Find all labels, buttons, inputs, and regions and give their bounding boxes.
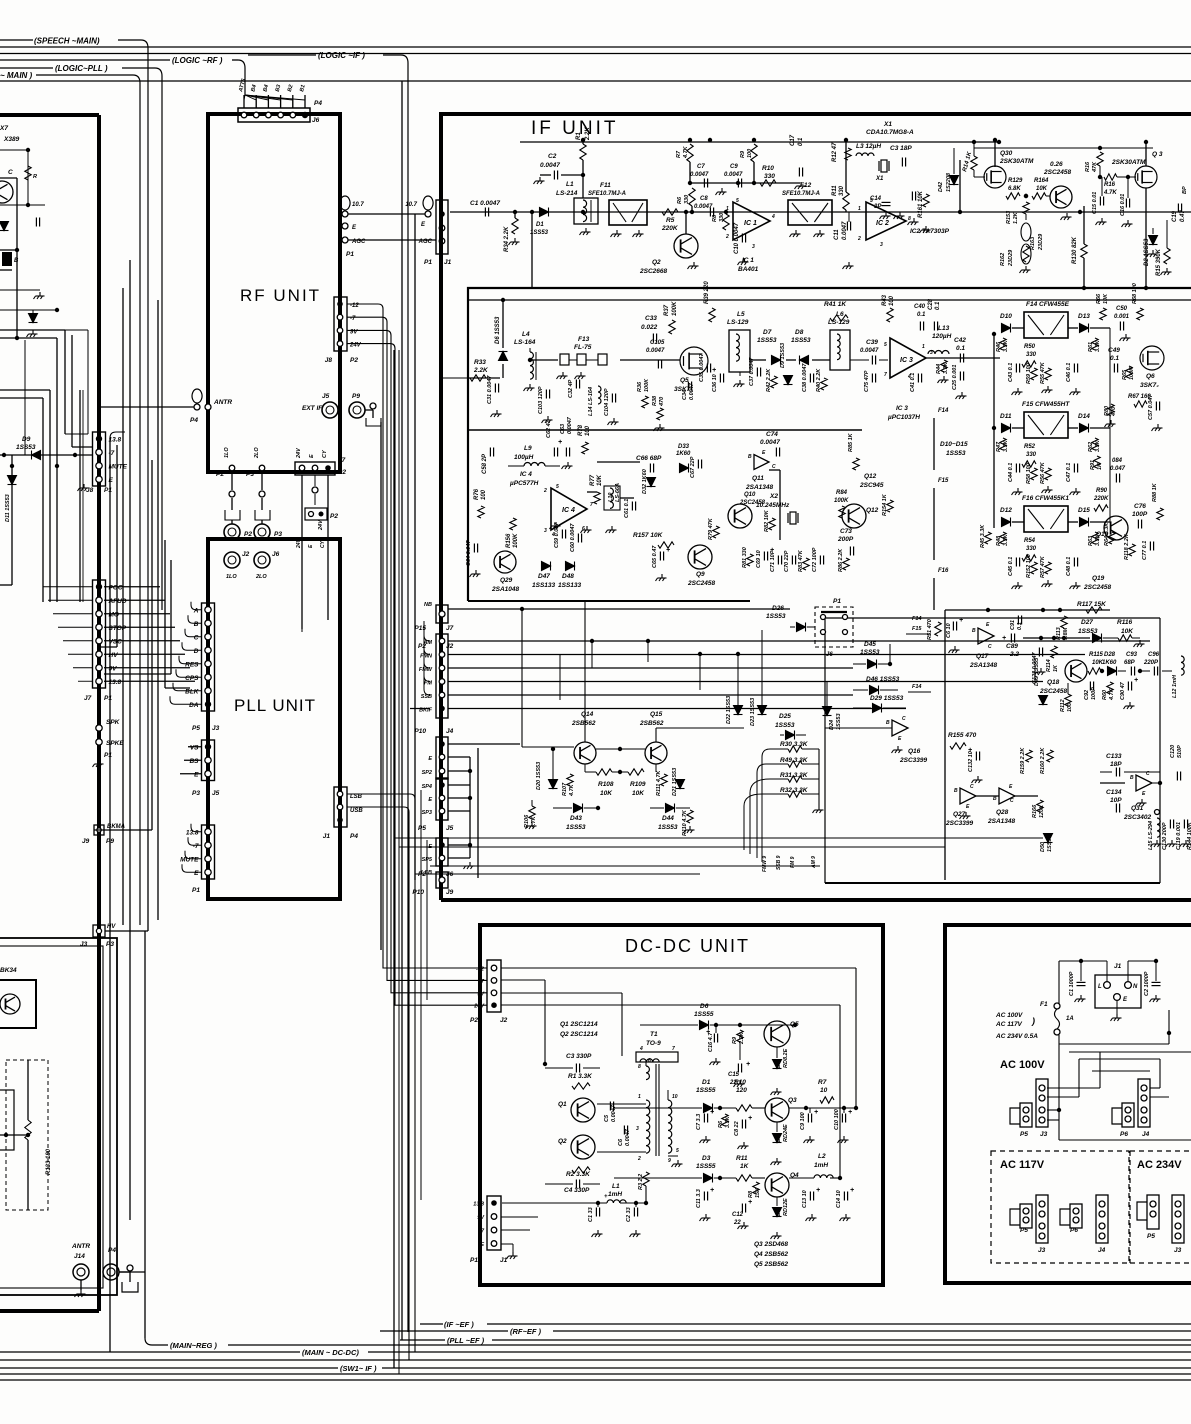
svg-text:F1: F1 — [1040, 1001, 1048, 1008]
wire agc — [348, 239, 436, 241]
connector P1 pll — [202, 825, 215, 879]
wire c133 bridge — [1100, 771, 1112, 773]
svg-text:L14 LS-164: L14 LS-164 — [588, 387, 594, 416]
wire J7 pin1 left — [48, 599, 93, 601]
svg-text:D22 1SS53: D22 1SS53 — [726, 696, 732, 724]
svg-text:D26: D26 — [772, 605, 784, 612]
svg-text:R36: R36 — [637, 381, 643, 392]
svg-text:D14: D14 — [1078, 413, 1090, 420]
capacitor lb c1 — [36, 218, 39, 227]
svg-text:1mH: 1mH — [608, 1191, 622, 1198]
svg-text:C120: C120 — [1170, 745, 1176, 758]
svg-text:6: 6 — [648, 1058, 651, 1064]
svg-text:Q31: Q31 — [1131, 805, 1144, 812]
svg-text:DA: DA — [189, 702, 199, 709]
pin FM — [439, 679, 445, 685]
svg-text:1SS53: 1SS53 — [775, 722, 795, 729]
svg-text:X1: X1 — [875, 176, 884, 182]
svg-text:RD24E: RD24E — [783, 1124, 789, 1142]
connector P6 ac — [1122, 1103, 1134, 1127]
svg-text:C65 0.47: C65 0.47 — [652, 545, 658, 568]
wire row3 h1 — [597, 461, 640, 463]
svg-text:C1 1000P: C1 1000P — [1069, 971, 1075, 996]
svg-text:C2 1000P: C2 1000P — [1144, 971, 1150, 996]
svg-text:D9: D9 — [22, 436, 31, 443]
pin E rf — [342, 223, 348, 229]
svg-text:Q14: Q14 — [581, 711, 594, 718]
svg-text:R68 100: R68 100 — [1132, 283, 1138, 304]
svg-text:C: C — [194, 634, 199, 641]
svg-text:R54: R54 — [1024, 538, 1036, 544]
svg-text:J6: J6 — [312, 117, 320, 124]
svg-text:AC 117V: AC 117V — [1000, 1159, 1045, 1171]
diode D11 — [8, 476, 17, 485]
svg-text:2SC3399: 2SC3399 — [945, 820, 973, 827]
wire return h2 — [399, 846, 945, 848]
svg-text:J6: J6 — [272, 551, 280, 558]
transistor Q19 — [1104, 516, 1128, 540]
svg-text:3: 3 — [880, 242, 883, 248]
wire ac rail3 — [1079, 1058, 1160, 1060]
small tri Q16 — [892, 720, 908, 736]
svg-text:C89: C89 — [1006, 643, 1018, 650]
wire pin5 up — [304, 95, 306, 108]
svg-text:B: B — [993, 796, 997, 802]
svg-text:1SS133: 1SS133 — [532, 582, 556, 589]
transistor Q4 dcdc — [765, 1173, 789, 1197]
svg-text:R78: R78 — [578, 424, 584, 436]
svg-text:10K: 10K — [632, 790, 645, 797]
svg-text:(LOGIC~PLL ): (LOGIC~PLL ) — [55, 64, 108, 73]
svg-text:IC 3: IC 3 — [896, 405, 908, 412]
pin -7 — [337, 314, 343, 320]
wire gap v6 — [157, 300, 159, 920]
svg-text:X7: X7 — [0, 125, 8, 132]
svg-text:R133 180: R133 180 — [46, 1148, 52, 1175]
svg-text:Q15: Q15 — [650, 711, 663, 718]
svg-text:R44: R44 — [936, 364, 942, 374]
subboard B outline — [468, 600, 750, 602]
svg-text:120µH: 120µH — [932, 333, 952, 340]
pin 24V — [337, 341, 343, 347]
RF unit outline — [208, 114, 340, 472]
svg-text:J3: J3 — [1040, 1131, 1048, 1138]
svg-text:Q10: Q10 — [744, 492, 756, 498]
svg-text:C: C — [1010, 798, 1014, 804]
svg-text:B: B — [954, 788, 958, 794]
svg-text:+: + — [850, 1187, 854, 1194]
wire ac drop3 — [1047, 1109, 1059, 1111]
svg-text:FMW: FMW — [419, 667, 433, 673]
small tri Q31 — [1136, 775, 1152, 791]
svg-text:N: N — [1133, 984, 1138, 990]
wire ac rail1 — [1059, 1043, 1169, 1045]
svg-text:3SK7₄: 3SK7₄ — [1140, 382, 1159, 389]
wire gap m2 — [398, 350, 400, 1374]
svg-text:J5: J5 — [446, 825, 454, 832]
svg-text:F16 CFW455K1: F16 CFW455K1 — [1022, 495, 1069, 502]
svg-text:P6: P6 — [1120, 1131, 1128, 1138]
svg-text:2LO: 2LO — [254, 447, 260, 459]
svg-text:F13: F13 — [578, 336, 590, 343]
svg-text:C14 10: C14 10 — [836, 1190, 842, 1208]
svg-text:4.7K: 4.7K — [1103, 190, 1117, 196]
svg-text:100µH: 100µH — [514, 454, 534, 461]
svg-text:F15 CFW455HT: F15 CFW455HT — [1022, 401, 1070, 408]
svg-text:C39: C39 — [866, 339, 878, 346]
svg-text:470: 470 — [659, 397, 665, 407]
wire rail q17 — [945, 609, 1110, 611]
wire FM left — [424, 662, 430, 682]
svg-text:J9: J9 — [82, 838, 90, 845]
svg-text:R109: R109 — [630, 781, 646, 788]
wire pll a6 — [173, 683, 202, 691]
pin C — [205, 634, 211, 640]
svg-text:µPC577H: µPC577H — [509, 480, 539, 487]
svg-text:D13: D13 — [1078, 313, 1090, 320]
transistor Q10 — [728, 504, 752, 528]
wire SSB — [448, 694, 853, 696]
svg-text:5: 5 — [676, 1148, 679, 1154]
pin A — [205, 607, 211, 613]
svg-text:C2: C2 — [548, 153, 557, 160]
svg-text:200P: 200P — [837, 536, 854, 543]
svg-text:BK34: BK34 — [0, 967, 17, 974]
inner rect — [0, 1090, 14, 1150]
svg-text:C32 4P: C32 4P — [568, 379, 574, 398]
connector J9/P9 BKMA — [94, 825, 104, 835]
svg-text:3: 3 — [544, 528, 547, 534]
wire q30 stub — [959, 160, 961, 212]
wire q17 link — [889, 644, 891, 664]
svg-text:(RF~EF ): (RF~EF ) — [510, 1327, 542, 1336]
svg-text:3P: 3P — [874, 204, 882, 210]
svg-text:R90: R90 — [1096, 488, 1108, 494]
transistor Q15 — [645, 742, 667, 764]
wire lo2 — [261, 471, 263, 490]
svg-text:Q1 2SC1214: Q1 2SC1214 — [560, 1021, 598, 1028]
svg-text:P3: P3 — [274, 531, 282, 538]
svg-text:2SC2458: 2SC2458 — [687, 580, 715, 587]
svg-text:L1: L1 — [612, 1183, 620, 1190]
svg-text:(SW1~ IF ): (SW1~ IF ) — [340, 1364, 377, 1373]
svg-text:D23 1SS53: D23 1SS53 — [750, 698, 756, 726]
svg-text:F15: F15 — [938, 478, 949, 484]
svg-text:C119 0.001: C119 0.001 — [1176, 822, 1182, 850]
svg-text:120: 120 — [736, 1087, 747, 1094]
svg-text:C6 10: C6 10 — [946, 623, 952, 638]
svg-text:2SB562: 2SB562 — [639, 720, 664, 727]
svg-text:330: 330 — [684, 195, 690, 204]
pin MUTE — [205, 856, 211, 862]
svg-text:SPK: SPK — [106, 719, 121, 726]
svg-text:C50: C50 — [1116, 306, 1128, 312]
pin dcdc2 -7 — [491, 1227, 497, 1233]
svg-text:D20 1SS53: D20 1SS53 — [536, 762, 542, 790]
svg-text:LSB: LSB — [350, 794, 363, 800]
svg-text:R8: R8 — [712, 214, 718, 222]
connector J8/P1 — [93, 432, 106, 486]
svg-text:D33: D33 — [678, 444, 690, 450]
svg-text:C38 0.0047: C38 0.0047 — [802, 363, 808, 392]
svg-text:R3 2.2: R3 2.2 — [638, 1174, 644, 1190]
svg-text:(MAIN ~ DC-DC): (MAIN ~ DC-DC) — [302, 1348, 359, 1357]
svg-text:Q4: Q4 — [790, 1172, 799, 1179]
wire J7 pin5 left — [68, 653, 93, 655]
connector J7/P1 — [93, 580, 106, 688]
svg-text:F15: F15 — [912, 626, 922, 632]
svg-text:10K: 10K — [600, 790, 613, 797]
svg-text:X389: X389 — [3, 136, 20, 143]
svg-text:1K: 1K — [740, 1163, 750, 1170]
wire left h7 — [0, 584, 12, 586]
svg-text:C7 3.3: C7 3.3 — [696, 1114, 702, 1130]
svg-text:C41 0.1: C41 0.1 — [910, 373, 916, 392]
svg-text:C69 10: C69 10 — [756, 550, 762, 568]
wire lb h12 — [0, 289, 40, 291]
svg-text:R88 1K: R88 1K — [1152, 482, 1158, 502]
wire bus ~MAIN — [0, 74, 1, 76]
wire pll c1 — [188, 837, 202, 845]
pin 13.8 — [205, 829, 211, 835]
speech unit inner — [0, 946, 103, 1288]
wire lo1 — [231, 471, 233, 490]
svg-text:R114: R114 — [1046, 659, 1052, 672]
wire pll b1 — [184, 759, 202, 761]
junction sp — [4, 1133, 8, 1137]
transistor Q12 — [842, 504, 866, 528]
wire return h3 — [430, 865, 820, 867]
svg-text:+: + — [558, 439, 562, 446]
svg-text:R85 1K: R85 1K — [848, 432, 854, 452]
svg-text:100: 100 — [585, 425, 591, 436]
svg-text:100P: 100P — [1132, 511, 1148, 518]
svg-text:IC 4: IC 4 — [520, 471, 532, 478]
svg-text:(IF ~EF ): (IF ~EF ) — [444, 1320, 474, 1329]
transistor Q18 — [1065, 660, 1087, 682]
wire bus b3 — [0, 1373, 1191, 1375]
svg-text:SFE10.7MJ-A: SFE10.7MJ-A — [782, 191, 820, 197]
wire ac drop4 — [1047, 1119, 1059, 1121]
svg-text:330: 330 — [1026, 452, 1037, 458]
component blob — [2, 252, 12, 266]
svg-text:+: + — [666, 547, 670, 554]
wire lb v11 — [82, 390, 84, 602]
junction c1 — [513, 210, 517, 214]
svg-text:ANTR: ANTR — [213, 399, 232, 406]
svg-text:0.1: 0.1 — [1110, 355, 1119, 362]
svg-text:R11: R11 — [736, 1155, 748, 1162]
wire row2 out — [926, 357, 1000, 359]
pin B — [205, 620, 211, 626]
svg-text:R7: R7 — [818, 1079, 827, 1086]
connector J7/P2 rf — [295, 462, 335, 475]
svg-text:AC 117V: AC 117V — [995, 1021, 1023, 1028]
svg-text:C90 47: C90 47 — [1120, 681, 1126, 700]
svg-text:C8: C8 — [700, 196, 708, 202]
pin E — [96, 476, 102, 482]
svg-text:(MAIN~REG ): (MAIN~REG ) — [170, 1341, 217, 1350]
wire row2 top — [468, 299, 1191, 301]
wire bus LOGIC~IF — [248, 54, 316, 56]
wire cy2 — [314, 475, 316, 486]
svg-text:C15 0.01: C15 0.01 — [1092, 192, 1098, 214]
svg-text:R50: R50 — [1024, 344, 1036, 350]
svg-text:J2: J2 — [500, 1017, 508, 1024]
wire bus b1 — [0, 1351, 300, 1353]
transistor Q6 — [1140, 346, 1164, 370]
svg-text:LS-129: LS-129 — [727, 319, 749, 326]
wire cy1 — [301, 475, 303, 629]
transistor Q9 — [688, 545, 712, 569]
svg-text:R60: R60 — [1102, 690, 1108, 700]
wire return h1 — [394, 837, 1043, 839]
svg-text:Q6: Q6 — [1146, 373, 1155, 380]
wire row2 main — [441, 377, 468, 379]
svg-text:C43 0.1: C43 0.1 — [1008, 363, 1014, 382]
svg-text:L9: L9 — [524, 445, 532, 452]
svg-text:L3 12µH: L3 12µH — [856, 143, 881, 150]
svg-text:F14 CFW455E: F14 CFW455E — [1026, 301, 1070, 308]
svg-text:C1 0.0047: C1 0.0047 — [470, 200, 500, 207]
svg-text:C10 100: C10 100 — [834, 1109, 840, 1130]
wire pin2 up — [267, 95, 269, 108]
svg-text:R115: R115 — [1089, 652, 1104, 658]
svg-text:-12: -12 — [476, 967, 484, 973]
svg-text:8: 8 — [638, 1064, 641, 1070]
svg-text:L12 1mH: L12 1mH — [1172, 674, 1178, 698]
svg-text:1K: 1K — [1053, 664, 1059, 672]
svg-text:D8: D8 — [795, 329, 804, 336]
transistor Q left — [0, 181, 13, 203]
wire AM — [448, 640, 1150, 642]
wire J7 pin3 left — [58, 626, 93, 628]
svg-text:510P: 510P — [1177, 745, 1183, 758]
svg-text:0.1: 0.1 — [917, 312, 926, 318]
svg-text:RD8.2E: RD8.2E — [783, 1048, 789, 1068]
svg-text:23D29: 23D29 — [1038, 233, 1044, 251]
wire l5 out — [750, 359, 766, 361]
connector P1/J1 if — [436, 200, 448, 254]
svg-text:C66 68P: C66 68P — [636, 455, 662, 462]
svg-text:D: D — [194, 648, 199, 655]
svg-text:P2: P2 — [216, 471, 224, 478]
svg-text:D29 1SS53: D29 1SS53 — [870, 695, 904, 702]
pin 13.8 — [96, 436, 102, 442]
svg-text:P4: P4 — [350, 833, 358, 840]
wire usb1 — [347, 807, 409, 1360]
svg-text:+: + — [848, 1109, 852, 1116]
svg-text:C19: C19 — [1172, 210, 1178, 222]
svg-text:C77 0.1: C77 0.1 — [1142, 541, 1148, 560]
wire NB long — [448, 608, 790, 610]
pin B2 — [266, 112, 272, 118]
svg-text:A: A — [193, 607, 199, 614]
AC unit outline — [945, 925, 1191, 1285]
svg-text:R7: R7 — [676, 150, 682, 158]
wire HV right — [105, 930, 148, 932]
svg-text:J5: J5 — [322, 393, 330, 400]
svg-text:1SS53: 1SS53 — [658, 824, 678, 831]
svg-text:Q2: Q2 — [558, 1138, 567, 1145]
svg-text:C31 0.0047: C31 0.0047 — [487, 375, 493, 404]
svg-text:SSB 9: SSB 9 — [776, 855, 782, 870]
svg-text:EXT IF: EXT IF — [302, 405, 323, 412]
svg-text:J2: J2 — [446, 643, 454, 650]
wire sp1 — [27, 1060, 29, 1120]
dashed box AC117V — [991, 1151, 1129, 1263]
svg-text:F14: F14 — [912, 684, 921, 690]
svg-text:C73: C73 — [840, 528, 852, 535]
resistor R5 — [662, 209, 678, 215]
svg-text:2LO: 2LO — [255, 574, 267, 580]
svg-text:24V: 24V — [318, 519, 324, 531]
svg-text:-7: -7 — [193, 843, 199, 850]
svg-text:C76: C76 — [1134, 503, 1146, 510]
svg-text:D46 1SS53: D46 1SS53 — [866, 676, 900, 683]
svg-text:Q11: Q11 — [752, 475, 764, 482]
pin 2LO — [259, 465, 265, 471]
svg-text:330: 330 — [1026, 546, 1037, 552]
node r5 — [690, 210, 694, 214]
svg-text:C35 0.0047: C35 0.0047 — [699, 353, 705, 382]
connector P5/J3 — [202, 603, 215, 711]
svg-text:R5: R5 — [666, 217, 675, 224]
gnd j1 e — [1116, 1000, 1118, 1014]
svg-text:BLK: BLK — [185, 688, 200, 695]
wire left h3 — [0, 269, 12, 271]
svg-text:6: 6 — [582, 526, 585, 532]
svg-text:Q9: Q9 — [696, 571, 705, 578]
svg-text:C11 3.3: C11 3.3 — [696, 1189, 702, 1208]
svg-text:D1: D1 — [536, 222, 544, 228]
svg-text:0.0047: 0.0047 — [567, 416, 573, 434]
svg-text:J4: J4 — [1142, 1131, 1150, 1138]
svg-text:5: 5 — [556, 484, 559, 490]
small tri Q28 — [999, 788, 1015, 804]
gnd antr — [80, 1280, 82, 1290]
svg-text:084: 084 — [1112, 458, 1123, 464]
wire FMN left — [424, 635, 430, 655]
svg-text:1LO: 1LO — [224, 447, 230, 458]
svg-text:0.26: 0.26 — [1050, 161, 1063, 168]
svg-text:100K: 100K — [644, 378, 650, 392]
connector P2/J6 — [436, 838, 448, 866]
svg-text:P2: P2 — [350, 357, 358, 364]
pin B3 — [278, 112, 284, 118]
wire J7 pin2 right — [104, 613, 170, 615]
svg-text:1SS53: 1SS53 — [860, 649, 880, 656]
wire pll a3 — [182, 642, 202, 650]
svg-text:18P: 18P — [1110, 761, 1122, 768]
svg-text:C134: C134 — [1106, 789, 1122, 796]
svg-text:C60 0.0047: C60 0.0047 — [570, 523, 576, 552]
connector J8/P2 — [334, 297, 347, 351]
svg-text:2SK30ATM: 2SK30ATM — [999, 158, 1034, 165]
connector P2/J2 dcdc — [487, 960, 501, 1012]
svg-text:C105: C105 — [650, 340, 665, 346]
pin MUTE — [96, 463, 102, 469]
svg-text:R43: R43 — [882, 294, 888, 306]
svg-text:2SC2458: 2SC2458 — [1043, 169, 1071, 176]
pin dcdc2 13.8 — [491, 1200, 497, 1206]
svg-text:LSB: LSB — [421, 870, 432, 876]
svg-text:(LOGIC ~IF ): (LOGIC ~IF ) — [318, 51, 365, 60]
svg-text:P9: P9 — [352, 393, 360, 400]
connector J3 ac3 — [1172, 1195, 1184, 1243]
connector P3/J5 — [202, 740, 215, 781]
svg-text:0.022: 0.022 — [641, 324, 658, 331]
